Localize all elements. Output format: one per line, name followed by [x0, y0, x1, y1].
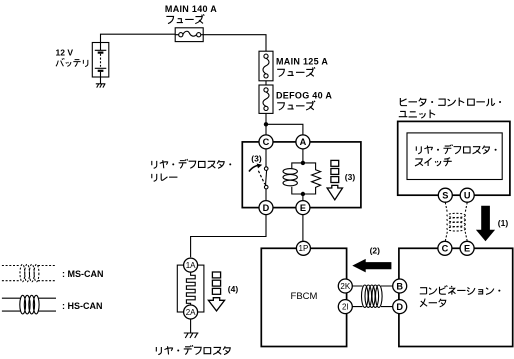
wire coil junction to E	[302, 194, 304, 201]
svg-text:(3): (3)	[251, 154, 262, 164]
wire A to coil junction	[302, 149, 304, 163]
label rear defroster	[156, 347, 161, 355]
arrow (4) dashed down	[212, 272, 220, 278]
wire relay D to defroster 1A	[191, 215, 266, 258]
wire MAIN125A to DEFOG fuse	[265, 81, 267, 85]
junction (coil top)	[301, 161, 305, 165]
svg-text:(4): (4)	[228, 284, 239, 294]
svg-text:MAIN 125 A: MAIN 125 A	[276, 56, 328, 66]
pin E (meter)	[460, 241, 474, 255]
pin A (relay)	[296, 135, 310, 149]
pin B (meter)	[393, 279, 407, 293]
arrow (3) dashed down	[331, 160, 339, 166]
svg-text:C: C	[442, 244, 449, 254]
label heater control unit	[400, 98, 407, 106]
pin C (meter)	[438, 241, 452, 255]
relay resistor R	[303, 163, 321, 194]
arrow (2) black left	[352, 259, 391, 273]
relay box rear defroster relay	[242, 142, 361, 208]
pin 2A (defroster)	[184, 305, 198, 319]
rear defroster element	[177, 265, 204, 312]
fuse MAIN 140A	[175, 28, 203, 42]
svg-text:: MS-CAN: : MS-CAN	[62, 269, 104, 279]
junction (fuse branch)	[264, 122, 268, 126]
MS-CAN twisted pair S,U to C,E	[445, 202, 467, 212]
heater control unit box	[398, 121, 510, 195]
legend HS-CAN twisted pair symbol	[2, 298, 56, 311]
rear defroster switch box	[407, 133, 502, 180]
pin S (heater unit)	[438, 188, 452, 202]
wire relay E to FBCM 1P	[302, 215, 304, 242]
label rear defroster switch	[416, 146, 421, 153]
pin 2K (FBCM)	[338, 279, 352, 293]
pin U (heater unit)	[460, 188, 474, 202]
wire junction to node A	[266, 124, 303, 135]
battery 12V	[92, 43, 109, 78]
wire MAIN140A fuse to MAIN125A fuse	[203, 35, 266, 52]
ground (defroster)	[184, 319, 199, 338]
svg-text:2A: 2A	[186, 308, 196, 317]
svg-text:1P: 1P	[299, 244, 309, 253]
wire DEFOG fuse to node C	[265, 113, 267, 134]
arrow (1) black down	[476, 206, 495, 242]
label rear defroster relay	[152, 161, 157, 168]
wire C to switch contact	[265, 149, 267, 167]
svg-text:DEFOG 40 A: DEFOG 40 A	[276, 90, 332, 100]
combination meter box	[399, 248, 513, 346]
legend MS-CAN twisted pair symbol	[2, 266, 56, 281]
HS-CAN twisted pair 2K,2I to B,D	[352, 286, 392, 307]
relay coil L	[292, 163, 303, 194]
relay switch K1	[264, 167, 268, 171]
FBCM box	[261, 248, 346, 346]
svg-text:S: S	[442, 191, 448, 201]
wire battery to MAIN140A fuse	[101, 34, 176, 42]
svg-text:(2): (2)	[370, 245, 381, 255]
pin D (meter)	[393, 300, 407, 314]
pin 1A (defroster)	[184, 258, 198, 272]
svg-text:(1): (1)	[498, 218, 509, 228]
svg-text:U: U	[464, 191, 471, 201]
svg-text:A: A	[300, 137, 307, 147]
svg-text:E: E	[300, 203, 306, 213]
svg-text:E: E	[464, 244, 470, 254]
pin C (relay)	[259, 135, 273, 149]
svg-text:FBCM: FBCM	[291, 291, 318, 302]
ground (battery)	[96, 77, 106, 88]
junction (coil bottom)	[301, 192, 305, 196]
svg-text:2I: 2I	[342, 303, 349, 312]
svg-text:C: C	[263, 137, 270, 147]
pin 2I (FBCM)	[338, 300, 352, 314]
pin D (relay)	[259, 201, 273, 215]
pin E (relay)	[296, 201, 310, 215]
svg-text:B: B	[396, 281, 403, 291]
pin 1P (FBCM)	[296, 241, 310, 255]
svg-text:D: D	[396, 302, 403, 312]
svg-text:MAIN 140 A: MAIN 140 A	[165, 4, 217, 14]
fuse MAIN 125A	[259, 51, 273, 81]
wire switch contact to D	[265, 189, 267, 201]
fuse DEFOG 40A	[259, 85, 273, 113]
label combination meter	[420, 288, 427, 294]
svg-text:: HS-CAN: : HS-CAN	[62, 301, 103, 311]
svg-text:1A: 1A	[186, 261, 196, 270]
svg-text:12 V: 12 V	[56, 48, 74, 58]
svg-text:2K: 2K	[340, 282, 350, 291]
svg-text:D: D	[263, 203, 270, 213]
svg-text:(3): (3)	[345, 172, 356, 182]
